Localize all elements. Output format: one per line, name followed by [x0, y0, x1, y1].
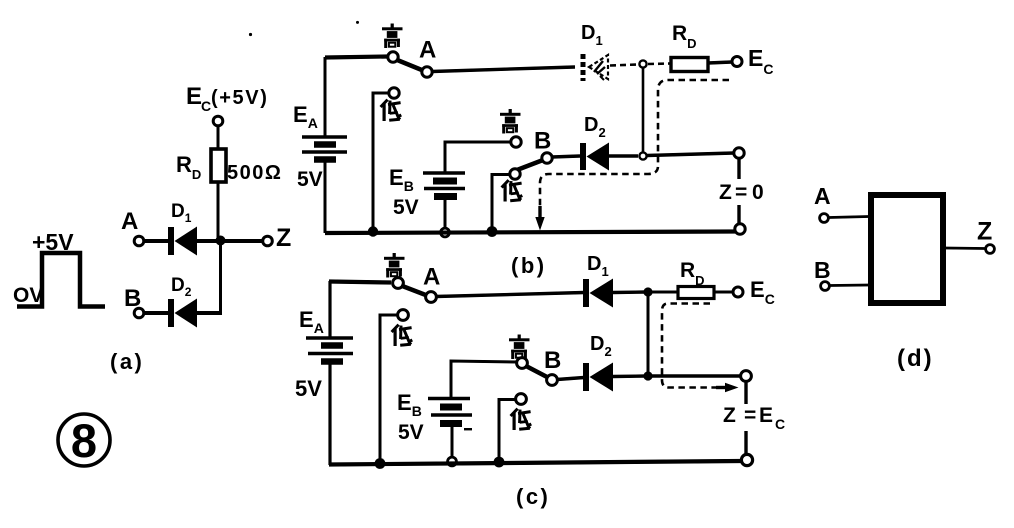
battery EB (c)	[428, 399, 472, 424]
label low (switch A, b)	[381, 100, 402, 121]
wire junction down to D2	[219, 241, 222, 313]
switch B pole (b)	[542, 153, 552, 163]
dashed wire junction to RD (b)	[648, 62, 670, 65]
wire low contact A to ground (b)	[373, 93, 389, 231]
switch A pole (b)	[422, 67, 432, 77]
ground wire (b)	[325, 232, 735, 234]
wire junction to Z (c)	[650, 374, 741, 377]
contact high of switch A (c)	[393, 278, 404, 289]
contact low of switch B (c)	[516, 394, 527, 405]
switch B arm (c)	[526, 366, 548, 378]
terminal B (a)	[134, 308, 144, 318]
terminal Z bottom (b)	[735, 224, 745, 234]
terminal Z top (b)	[734, 148, 744, 158]
battery EA (b)	[302, 137, 347, 160]
wire RD to Ec (b)	[708, 62, 732, 63]
svg-text:B: B	[814, 257, 831, 283]
wire EA top to switch A high contact (c)	[329, 282, 391, 283]
wire switch A to D1 (b)	[432, 67, 575, 72]
label high (switch A, b)	[382, 24, 403, 49]
junction dot bottom (c)	[643, 371, 652, 380]
junction dot B-low on ground wire (b)	[487, 226, 498, 237]
wire switch B pole to D2 (b)	[552, 156, 580, 157]
wire A to box (d)	[829, 217, 869, 218]
junction dot B-low on ground wire (c)	[494, 457, 505, 468]
wire junction to Z (b)	[647, 153, 734, 156]
junction node D2 row (b)	[639, 152, 646, 159]
svg-text:Z=0: Z=0	[719, 181, 764, 204]
junction node below RD (b)	[639, 60, 646, 67]
dashed wire D1 to junction (b)	[610, 65, 637, 66]
terminal Ec (c)	[733, 287, 743, 297]
wire B to D2	[144, 311, 169, 315]
terminal Z (a)	[263, 236, 273, 246]
wire D1 to junction (c)	[613, 290, 646, 294]
dashed current path from RD to ground (b)	[540, 80, 729, 219]
wire switch B pole to D2 (c)	[557, 378, 584, 380]
diode D2 (a)	[168, 299, 197, 328]
terminal A (a)	[134, 236, 144, 246]
wire EA bottom lead to ground (c)	[328, 363, 331, 465]
svg-text:5V: 5V	[297, 168, 323, 191]
wire switch A to D1 (c)	[436, 293, 584, 297]
diode D1 (a)	[168, 227, 197, 256]
svg-text:A: A	[121, 208, 138, 235]
terminal Z (d)	[986, 245, 995, 254]
svg-text:5V: 5V	[398, 421, 424, 444]
diode D2 (b)	[580, 143, 609, 171]
terminal Ec (a)	[213, 116, 223, 126]
terminal Z top (c)	[741, 371, 752, 382]
switch A arm (c)	[401, 286, 427, 296]
minus mark near EB (c)	[464, 428, 472, 430]
switch B arm (b)	[513, 160, 543, 172]
svg-text:B: B	[544, 347, 561, 374]
terminal A (d)	[820, 214, 829, 223]
current arrow head (c)	[716, 383, 739, 392]
terminal EB on ground wire (c)	[448, 457, 457, 466]
svg-text:A: A	[423, 264, 440, 291]
contact low of switch A (c)	[398, 310, 409, 321]
current arrow head (b)	[535, 206, 544, 231]
contact high of switch B (b)	[511, 137, 521, 147]
wire Z top stub (c)	[744, 382, 747, 404]
wire B to box (d)	[830, 284, 869, 287]
svg-text:+5V: +5V	[32, 229, 74, 255]
wire EA top lead (b)	[324, 57, 327, 136]
stray ink dot	[356, 21, 359, 24]
terminal Ec (b)	[732, 57, 742, 67]
label low (switch B, c)	[511, 409, 532, 430]
svg-text:A: A	[814, 183, 831, 209]
input pulse waveform +5V/0V	[17, 253, 105, 307]
wire D2 to junction (c)	[613, 374, 646, 378]
wire EB top to high contact B (b)	[445, 142, 511, 172]
wire A to D1	[144, 239, 169, 243]
switch B pole (c)	[547, 375, 558, 386]
svg-text:(a): (a)	[110, 349, 144, 374]
wire Z bottom stub (c)	[744, 431, 747, 454]
contact high of switch B (c)	[517, 358, 528, 369]
terminal B (d)	[821, 282, 830, 291]
label high (switch B, c)	[509, 335, 530, 360]
dashed current path RD to Z (c)	[662, 304, 727, 388]
contact low of switch A (b)	[389, 88, 399, 98]
wire Z bottom stub (b)	[737, 205, 740, 224]
svg-text:OV: OV	[13, 284, 43, 307]
diode D2 (c)	[583, 363, 613, 392]
svg-text:(b): (b)	[511, 253, 547, 278]
svg-text:(d): (d)	[897, 345, 934, 372]
wire low contact A to ground (c)	[380, 315, 398, 462]
label low (switch B, b)	[502, 180, 523, 201]
junction dot A-low on ground wire (b)	[368, 226, 378, 236]
wire box to Z (d)	[945, 247, 985, 250]
wire junction to RD (c)	[650, 291, 678, 294]
wire D2 to vertical	[197, 311, 222, 315]
svg-text:A: A	[419, 37, 436, 64]
svg-text:Z: Z	[276, 224, 291, 252]
contact high of switch A (b)	[388, 52, 398, 62]
switch A pole (c)	[426, 292, 437, 303]
label high (switch B, b)	[500, 109, 521, 134]
wire D2 to junction (b)	[609, 154, 638, 157]
resistor RD (b)	[671, 58, 708, 72]
wire junction down (c)	[647, 292, 650, 376]
label low (switch A, c)	[392, 325, 413, 346]
switch A arm (b)	[396, 60, 423, 71]
figure number badge 8	[58, 414, 110, 467]
wire low contact B to ground (b)	[492, 175, 510, 231]
wire EB bottom lead (b)	[444, 200, 447, 228]
wire low contact B to ground (c)	[499, 400, 516, 461]
svg-text:(c): (c)	[516, 484, 550, 509]
svg-text:Z: Z	[977, 218, 992, 246]
label high (switch A, c)	[384, 253, 405, 278]
wire RD to Ec (c)	[714, 291, 733, 294]
wire Ec to RD	[217, 126, 220, 149]
wire EB bottom lead (c)	[451, 427, 454, 457]
stray ink dot 2	[249, 33, 252, 36]
wire EA top to switch A high contact	[325, 57, 387, 58]
svg-text:5V: 5V	[295, 376, 322, 401]
terminal Z bottom (c)	[741, 454, 752, 465]
ground wire (c)	[329, 461, 741, 465]
resistor RD (a)	[211, 149, 226, 182]
terminal EB on ground wire (b)	[441, 228, 450, 237]
junction node (a)	[216, 236, 226, 246]
wire EB top to high contact B (c)	[451, 361, 517, 398]
junction dot A-low on ground wire (c)	[375, 458, 386, 469]
svg-text:5V: 5V	[393, 196, 419, 219]
resistor RD (c)	[678, 287, 714, 299]
wire RD to node Z	[217, 182, 220, 241]
battery EA (c)	[306, 338, 353, 362]
wire EA top lead (c)	[328, 281, 331, 337]
diode D1 (b, cut off, dashed)	[583, 54, 608, 81]
wire junction down to D2 row (b)	[642, 68, 645, 152]
contact low of switch B (b)	[510, 169, 520, 179]
wire EA bottom lead to ground (b)	[324, 160, 327, 233]
gate box U1 (d)	[871, 195, 943, 303]
wire Z top stub (b)	[737, 159, 740, 179]
junction dot top (c)	[643, 287, 652, 296]
svg-text:500Ω: 500Ω	[227, 162, 282, 184]
svg-text:8: 8	[71, 414, 97, 467]
battery EB (b)	[423, 173, 465, 197]
svg-text:B: B	[534, 128, 551, 155]
wire D1 to Z terminal	[197, 239, 263, 243]
diode D1 (c)	[583, 279, 613, 308]
